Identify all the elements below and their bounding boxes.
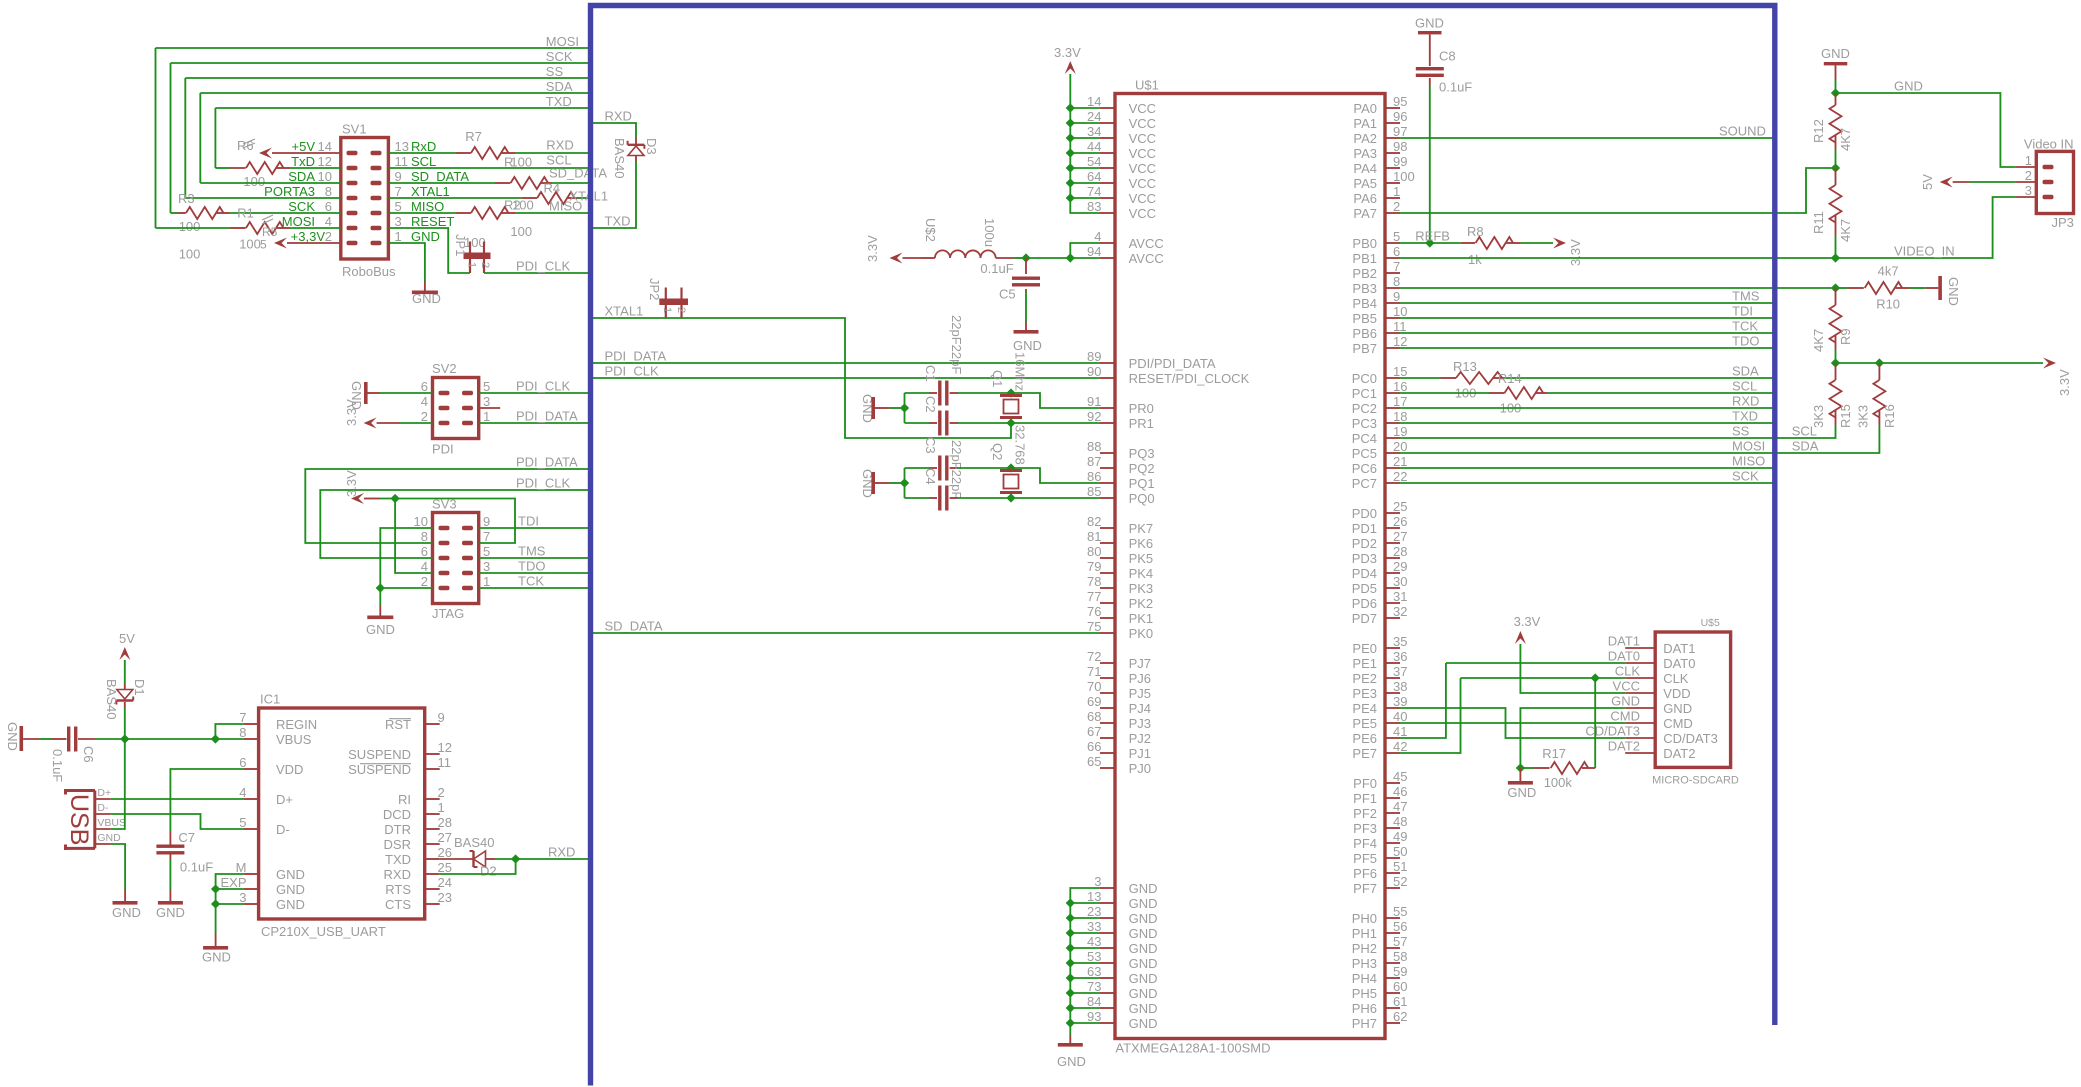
svg-text:PD6: PD6 (1352, 596, 1377, 611)
pin 80 PK5 U$1 (1100, 557, 1115, 559)
svg-text:36: 36 (1393, 649, 1407, 664)
svg-text:100: 100 (179, 247, 201, 262)
pin 74 VCC U$1 (1100, 197, 1115, 199)
svg-text:BAS40: BAS40 (104, 679, 119, 719)
junction Q2 top (1006, 463, 1015, 472)
svg-text:CMD: CMD (1610, 709, 1640, 724)
svg-text:2: 2 (325, 229, 332, 244)
capacitor C1 (929, 392, 937, 394)
ic IC1 CP210X_USB_UART (259, 708, 425, 919)
svg-text:CP210X_USB_UART: CP210X_USB_UART (261, 924, 386, 939)
wire TDO (1400, 347, 1775, 349)
svg-text:GND: GND (1946, 277, 1961, 306)
pin 69 PJ4 U$1 (1100, 707, 1115, 709)
pin 72 PJ7 U$1 (1100, 662, 1115, 664)
junction GND row 60 (1066, 1003, 1075, 1012)
svg-text:14: 14 (318, 139, 332, 154)
svg-text:PE6: PE6 (1352, 731, 1377, 746)
svg-text:TDO: TDO (518, 558, 545, 573)
wire VCC row 1 (1070, 122, 1100, 124)
junction GND row 56 (1066, 943, 1075, 952)
wire Q2 rails vertical (904, 468, 906, 498)
svg-text:2: 2 (675, 307, 687, 313)
pin 26 PD1 U$1 (1385, 527, 1400, 529)
svg-text:22: 22 (1393, 469, 1407, 484)
svg-text:PDI_DATA: PDI_DATA (516, 408, 578, 423)
svg-text:DTR: DTR (384, 822, 411, 837)
svg-text:PE7: PE7 (1352, 746, 1377, 761)
svg-text:17: 17 (1393, 394, 1407, 409)
svg-text:87: 87 (1087, 454, 1101, 469)
svg-text:VCC: VCC (1129, 176, 1156, 191)
pin 6 VDD IC1 (244, 768, 259, 770)
svg-text:PJ6: PJ6 (1129, 671, 1151, 686)
svg-text:3: 3 (483, 559, 490, 574)
svg-text:PK2: PK2 (1129, 596, 1154, 611)
svg-text:DAT0: DAT0 (1608, 649, 1640, 664)
svg-text:91: 91 (1087, 394, 1101, 409)
pin 78 PK3 U$1 (1100, 587, 1115, 589)
svg-text:0.1uF: 0.1uF (180, 859, 213, 874)
svg-text:100: 100 (512, 198, 534, 213)
svg-text:PK7: PK7 (1129, 521, 1154, 536)
pin 33 GND U$1 (1100, 932, 1115, 934)
svg-text:PE2: PE2 (1352, 671, 1377, 686)
svg-text:7: 7 (1393, 259, 1400, 274)
svg-text:30: 30 (1393, 574, 1407, 589)
junction GND row 61 (1066, 1018, 1075, 1027)
svg-text:19: 19 (1393, 424, 1407, 439)
svg-text:VDD: VDD (276, 762, 303, 777)
svg-text:42: 42 (1393, 739, 1407, 754)
wire GND row 54 (1070, 917, 1100, 919)
svg-text:GND: GND (1129, 971, 1158, 986)
svg-text:2: 2 (438, 785, 445, 800)
svg-text:REFB: REFB (1415, 228, 1450, 243)
svg-text:PA7: PA7 (1353, 206, 1377, 221)
svg-text:PC5: PC5 (1352, 446, 1377, 461)
wire USB GND down (111, 844, 125, 889)
resistor R13 (1400, 377, 1441, 379)
wire SS PC4 (1400, 437, 1775, 439)
svg-text:DAT0: DAT0 (1663, 656, 1695, 671)
pin 65 PJ0 U$1 (1100, 767, 1115, 769)
wire net MOSI bus (156, 47, 591, 49)
crystal Q1 16Mhz (1010, 393, 1012, 395)
svg-text:PC7: PC7 (1352, 476, 1377, 491)
junction GND R17 (1516, 763, 1525, 772)
svg-text:RXD: RXD (548, 844, 575, 859)
wire TDO (479, 572, 591, 574)
svg-text:C2: C2 (923, 396, 938, 413)
junction VCC row 4 (1066, 163, 1075, 172)
svg-text:12: 12 (438, 740, 452, 755)
svg-text:PD1: PD1 (1352, 521, 1377, 536)
pin 23 GND U$1 (1100, 917, 1115, 919)
svg-text:MISO: MISO (1732, 453, 1765, 468)
svg-text:PQ1: PQ1 (1129, 476, 1155, 491)
svg-text:+3,3V: +3,3V (291, 229, 326, 244)
junction VCC row 5 (1066, 178, 1075, 187)
wire R9 net PB3 (1400, 287, 1836, 289)
pin 77 PK2 U$1 (1100, 602, 1115, 604)
svg-text:62: 62 (1393, 1009, 1407, 1024)
svg-text:3.3V: 3.3V (865, 235, 880, 262)
svg-text:M: M (236, 860, 247, 875)
svg-text:100: 100 (510, 224, 532, 239)
svg-text:SCL: SCL (1732, 378, 1757, 393)
wire C2 to Q1 (958, 422, 1011, 424)
svg-text:MISO: MISO (549, 199, 582, 214)
wire MISO PC6 (1400, 467, 1775, 469)
wire net SCK bus (171, 62, 591, 64)
svg-text:51: 51 (1393, 859, 1407, 874)
svg-text:18: 18 (1393, 409, 1407, 424)
svg-text:BAS40: BAS40 (612, 138, 627, 178)
svg-text:9: 9 (395, 169, 402, 184)
svg-text:DSR: DSR (384, 837, 411, 852)
wire PDI_CLK from JP1 (484, 272, 591, 274)
wire GND row 60 (1070, 1007, 1100, 1009)
svg-text:4: 4 (325, 214, 332, 229)
svg-text:25: 25 (1393, 499, 1407, 514)
svg-text:93: 93 (1087, 1009, 1101, 1024)
svg-text:SCL: SCL (1792, 423, 1817, 438)
pin 12 PB7 U$1 (1385, 347, 1400, 349)
wire SV1 GND (388, 243, 425, 281)
pin 36 PE1 U$1 (1385, 662, 1400, 664)
svg-text:CTS: CTS (385, 897, 411, 912)
pin 93 GND U$1 (1100, 1022, 1115, 1024)
svg-text:24: 24 (1087, 109, 1101, 124)
junction VCC row 0 (1066, 103, 1075, 112)
svg-text:69: 69 (1087, 694, 1101, 709)
svg-text:PC3: PC3 (1352, 416, 1377, 431)
svg-text:PDI_DATA: PDI_DATA (605, 348, 667, 363)
svg-text:TMS: TMS (518, 543, 546, 558)
svg-text:16Mhz: 16Mhz (1013, 352, 1028, 391)
svg-text:1: 1 (483, 409, 490, 424)
pin 25 PD0 U$1 (1385, 512, 1400, 514)
svg-text:AVCC: AVCC (1129, 236, 1164, 251)
svg-text:PQ3: PQ3 (1129, 446, 1155, 461)
wire GND to JP3 pin1 (1836, 93, 2016, 167)
pin 63 GND U$1 (1100, 977, 1115, 979)
svg-text:GND: GND (1611, 694, 1640, 709)
pin 2 PA7 U$1 (1385, 212, 1400, 214)
svg-text:59: 59 (1393, 964, 1407, 979)
svg-text:RXD: RXD (384, 867, 411, 882)
svg-text:1: 1 (483, 574, 490, 589)
svg-text:1: 1 (466, 262, 478, 268)
svg-text:96: 96 (1393, 109, 1407, 124)
wire VCC row 6 (1070, 197, 1100, 199)
wire SD_DATA (591, 632, 1101, 634)
svg-text:PDI_CLK: PDI_CLK (516, 378, 571, 393)
svg-text:47: 47 (1393, 799, 1407, 814)
svg-text:5: 5 (239, 815, 246, 830)
wire REFB (1400, 242, 1430, 244)
svg-text:41: 41 (1393, 724, 1407, 739)
svg-text:PQ0: PQ0 (1129, 491, 1155, 506)
wire Q2 bottom rail (905, 497, 930, 499)
svg-text:43: 43 (1087, 934, 1101, 949)
svg-text:82: 82 (1087, 514, 1101, 529)
wire PDI_CLK (591, 377, 1101, 379)
svg-text:PD2: PD2 (1352, 536, 1377, 551)
pin 96 PA1 U$1 (1385, 122, 1400, 124)
svg-text:TCK: TCK (1732, 318, 1758, 333)
svg-text:44: 44 (1087, 139, 1101, 154)
resistor R2 (388, 197, 521, 199)
wire VIDEO_IN to JP3 pin3 (1836, 197, 2016, 258)
svg-text:PJ0: PJ0 (1129, 761, 1151, 776)
svg-text:ATXMEGA128A1-100SMD: ATXMEGA128A1-100SMD (1115, 1041, 1270, 1056)
pin 27 PD2 U$1 (1385, 542, 1400, 544)
junction RXD D2 (511, 854, 520, 863)
svg-text:GND: GND (412, 291, 441, 306)
svg-text:PC1: PC1 (1352, 386, 1377, 401)
svg-text:27: 27 (438, 830, 452, 845)
resistor R4 (388, 182, 495, 184)
pin 8 PB3 U$1 (1385, 287, 1400, 289)
svg-text:67: 67 (1087, 724, 1101, 739)
svg-text:SV1: SV1 (342, 122, 367, 137)
resistor R17 (1520, 767, 1534, 769)
pin 71 PJ6 U$1 (1100, 677, 1115, 679)
pin 38 PE3 U$1 (1385, 692, 1400, 694)
svg-text:66: 66 (1087, 739, 1101, 754)
junction GND row 55 (1066, 928, 1075, 937)
svg-text:21: 21 (1393, 454, 1407, 469)
junction Q1 top (1006, 388, 1015, 397)
svg-text:PJ4: PJ4 (1129, 701, 1151, 716)
wire SDA to SV1 (200, 182, 340, 184)
svg-text:PB3: PB3 (1352, 281, 1377, 296)
svg-text:JP1: JP1 (453, 234, 468, 256)
svg-text:PA5: PA5 (1353, 176, 1377, 191)
svg-text:RxD: RxD (411, 139, 436, 154)
svg-text:XTAL1: XTAL1 (605, 303, 644, 318)
supply 3.3V arrow right (2043, 358, 2056, 369)
wire GND row 55 (1070, 932, 1100, 934)
svg-text:11: 11 (395, 154, 409, 169)
wire SCL row (388, 167, 590, 169)
svg-text:35: 35 (1393, 634, 1407, 649)
wire GND row 58 (1070, 977, 1100, 979)
svg-text:PD5: PD5 (1352, 581, 1377, 596)
wire PE4 to CD/DAT3 (1400, 708, 1625, 738)
resistor R6 (215, 167, 229, 169)
svg-text:11: 11 (438, 755, 452, 770)
svg-text:PF4: PF4 (1353, 836, 1377, 851)
svg-text:PA4: PA4 (1353, 161, 1377, 176)
pin 48 PF3 U$1 (1385, 827, 1400, 829)
svg-text:D3: D3 (644, 138, 659, 155)
wire AVCC pin4 (1070, 243, 1100, 258)
svg-text:R7: R7 (465, 129, 482, 144)
junction 3.3V SV3 (390, 494, 399, 503)
svg-text:TDO: TDO (1732, 333, 1759, 348)
pin CLK U$5 (1625, 677, 1655, 679)
pin 37 PE2 U$1 (1385, 677, 1400, 679)
svg-text:86: 86 (1087, 469, 1101, 484)
pin 4 AVCC U$1 (1100, 242, 1115, 244)
wire GND row 53 (1070, 902, 1100, 904)
pin 4 D+ IC1 (244, 798, 259, 800)
svg-text:PD0: PD0 (1352, 506, 1377, 521)
svg-text:PK0: PK0 (1129, 626, 1154, 641)
svg-text:PB4: PB4 (1352, 296, 1377, 311)
svg-text:57: 57 (1393, 934, 1407, 949)
svg-text:VBUS: VBUS (276, 732, 312, 747)
svg-text:GND: GND (1129, 911, 1158, 926)
svg-text:C5: C5 (999, 287, 1016, 302)
svg-text:26: 26 (1393, 514, 1407, 529)
svg-text:100: 100 (510, 155, 532, 170)
pin 97 PA2 U$1 (1385, 137, 1400, 139)
svg-text:12: 12 (1393, 334, 1407, 349)
wire C8 to REFB (1429, 86, 1431, 243)
crystal Q2 32.768 (1010, 468, 1012, 470)
junction VBUS D1 (120, 734, 129, 743)
svg-text:GND: GND (1129, 881, 1158, 896)
svg-text:TXD: TXD (546, 94, 572, 109)
svg-text:Video IN: Video IN (2024, 136, 2074, 151)
wire SOUND (1400, 137, 1775, 139)
pin 51 PF6 U$1 (1385, 872, 1400, 874)
pin 9 PB4 U$1 (1385, 302, 1400, 304)
svg-text:USB: USB (65, 794, 93, 845)
svg-text:0.1uF: 0.1uF (1439, 80, 1472, 95)
svg-text:4: 4 (239, 785, 246, 800)
pin 31 PD6 U$1 (1385, 602, 1400, 604)
svg-text:DAT2: DAT2 (1663, 746, 1695, 761)
junction GND Q2 (900, 478, 909, 487)
pin 53 GND U$1 (1100, 962, 1115, 964)
svg-text:1k: 1k (1468, 252, 1482, 267)
junction GND Q1 (900, 403, 909, 412)
svg-text:C8: C8 (1439, 49, 1456, 64)
pin EXP GND IC1 (244, 888, 259, 890)
svg-text:RTS: RTS (385, 882, 411, 897)
pin 76 PK1 U$1 (1100, 617, 1115, 619)
svg-text:SDA: SDA (1792, 438, 1819, 453)
svg-text:39: 39 (1393, 694, 1407, 709)
wire GND row 61 (1070, 1022, 1100, 1024)
pin DAT0 U$5 (1625, 662, 1655, 664)
junction REGIN (211, 734, 220, 743)
pin VDD U$5 (1625, 692, 1655, 694)
pin stub USB D+ (95, 798, 111, 800)
svg-text:94: 94 (1087, 244, 1101, 259)
svg-text:29: 29 (1393, 559, 1407, 574)
svg-text:VCC: VCC (1129, 116, 1156, 131)
junction AVCC pin4 (1066, 253, 1075, 262)
supply +3.3V arrow (274, 238, 287, 249)
capacitor C8 (1416, 67, 1444, 70)
pin 30 PD5 U$1 (1385, 587, 1400, 589)
pin 22 PC7 U$1 (1385, 482, 1400, 484)
svg-text:SCL: SCL (411, 154, 436, 169)
svg-text:53: 53 (1087, 949, 1101, 964)
pin 94 AVCC U$1 (1100, 257, 1115, 259)
svg-text:GND: GND (1129, 956, 1158, 971)
svg-text:JP3: JP3 (2052, 215, 2074, 230)
svg-text:61: 61 (1393, 994, 1407, 1009)
pin stub SV2 pin3 (479, 407, 501, 409)
wire USB D- to IC1 (111, 814, 244, 829)
svg-text:PD4: PD4 (1352, 566, 1377, 581)
svg-text:3.3V: 3.3V (344, 399, 359, 426)
svg-text:JTAG: JTAG (432, 606, 464, 621)
pin 79 PK4 U$1 (1100, 572, 1115, 574)
pin 7 PB2 U$1 (1385, 272, 1400, 274)
svg-text:79: 79 (1087, 559, 1101, 574)
pin 7 REGIN IC1 (244, 723, 259, 725)
svg-text:GND: GND (112, 905, 141, 920)
svg-text:2: 2 (479, 262, 491, 268)
svg-text:PD7: PD7 (1352, 611, 1377, 626)
svg-text:23: 23 (438, 890, 452, 905)
pin 86 PQ1 U$1 (1100, 482, 1115, 484)
svg-text:PJ1: PJ1 (1129, 746, 1151, 761)
svg-text:58: 58 (1393, 949, 1407, 964)
pin 12 SUSPEND IC1 (425, 753, 440, 755)
svg-text:3: 3 (2025, 183, 2032, 198)
svg-text:U$2: U$2 (923, 218, 938, 242)
svg-text:PA6: PA6 (1353, 191, 1377, 206)
capacitor C6 (40, 738, 51, 740)
connector JP3 Video IN (2036, 151, 2073, 213)
svg-text:PH5: PH5 (1352, 986, 1377, 1001)
svg-text:PC4: PC4 (1352, 431, 1377, 446)
svg-text:CLK: CLK (1615, 664, 1641, 679)
pin stub USB D- (95, 813, 111, 815)
svg-text:PH0: PH0 (1352, 911, 1377, 926)
resistor R10 (1836, 287, 1849, 289)
wire 3.3V to SV3 pin4 (395, 499, 432, 574)
svg-text:SV2: SV2 (432, 361, 457, 376)
svg-text:88: 88 (1087, 439, 1101, 454)
svg-text:TCK: TCK (518, 573, 544, 588)
svg-text:78: 78 (1087, 574, 1101, 589)
svg-text:GND: GND (1129, 1016, 1158, 1031)
svg-text:R16: R16 (1882, 404, 1897, 428)
svg-text:VCC: VCC (1129, 101, 1156, 116)
pin 59 PH4 U$1 (1385, 977, 1400, 979)
pin 20 PC5 U$1 (1385, 452, 1400, 454)
svg-text:8: 8 (421, 529, 428, 544)
svg-text:9: 9 (483, 514, 490, 529)
svg-text:97: 97 (1393, 124, 1407, 139)
svg-text:RESET: RESET (411, 214, 454, 229)
svg-text:8: 8 (239, 725, 246, 740)
svg-text:PH6: PH6 (1352, 1001, 1377, 1016)
wire DAT0 to pin41 (1446, 662, 1625, 664)
svg-text:4k7: 4k7 (1878, 263, 1899, 278)
svg-text:4: 4 (421, 394, 428, 409)
svg-text:PDI_CLK: PDI_CLK (516, 475, 571, 490)
svg-text:DCD: DCD (383, 807, 411, 822)
resistor R7 (388, 152, 455, 154)
svg-text:7: 7 (395, 184, 402, 199)
svg-text:GND: GND (1129, 941, 1158, 956)
svg-text:RoboBus: RoboBus (342, 264, 396, 279)
svg-text:80: 80 (1087, 544, 1101, 559)
pin 92 PR1 U$1 (1100, 422, 1115, 424)
svg-text:100: 100 (1393, 169, 1415, 184)
